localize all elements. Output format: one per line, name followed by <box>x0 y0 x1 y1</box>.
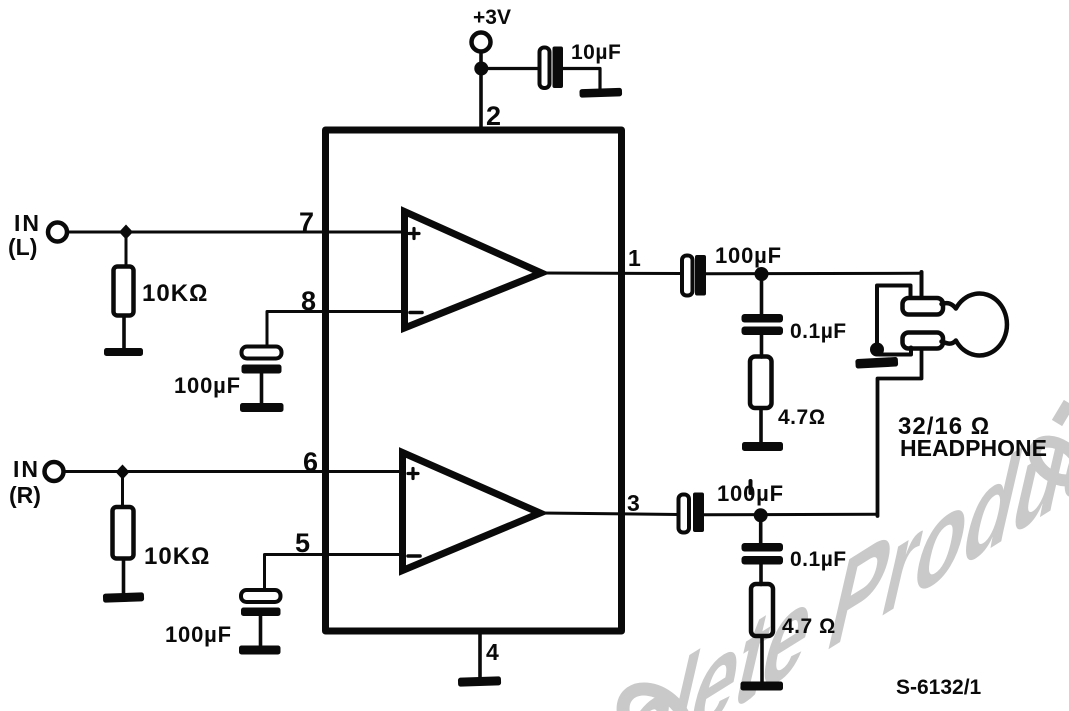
wire pin 1 output <box>542 272 683 276</box>
wire node L to C6 <box>760 274 764 315</box>
ground (C2) <box>240 403 284 412</box>
capacitor 10uF plate - <box>553 47 564 89</box>
wire supply to pin 2 <box>479 70 483 130</box>
wire IN(L) to pin 7 <box>67 231 405 234</box>
node supply junction <box>474 62 488 76</box>
ground (R2) <box>103 592 144 602</box>
capacitor C7 100uF (R out) plate - <box>693 493 704 533</box>
node input R junction <box>116 465 130 480</box>
ground (R3) <box>742 442 783 451</box>
ground (C4) <box>239 646 281 655</box>
capacitor C5 100uF (L out) plate - <box>695 255 706 296</box>
wire sleeve to ground link <box>879 348 911 355</box>
capacitor C6 0.1uF (L) plate top <box>742 314 784 323</box>
wire node R to C8 <box>759 515 763 543</box>
wire +3V stem <box>479 52 483 64</box>
svg-text:2: 2 <box>486 101 501 131</box>
svg-text:(L): (L) <box>8 234 37 260</box>
capacitor 10uF plate + <box>540 48 550 89</box>
+3V terminal <box>472 33 491 52</box>
svg-text:3: 3 <box>627 490 640 516</box>
ground (10uF) <box>579 88 622 98</box>
wire C4 to ground <box>259 616 263 646</box>
capacitor C8 0.1uF (R) plate bottom <box>742 556 784 565</box>
wire supply to C bypass <box>481 67 540 70</box>
wire R4 to ground <box>760 636 764 682</box>
svg-text:100µF: 100µF <box>715 243 782 268</box>
svg-text:IN: IN <box>14 210 41 236</box>
wire C7 to headphone <box>704 513 878 517</box>
svg-text:5: 5 <box>295 528 310 558</box>
headphone jack sleeve bracket <box>877 286 911 350</box>
wire C2 to ground <box>260 374 264 404</box>
wire C6 to R3 <box>760 335 764 357</box>
svg-text:8: 8 <box>301 286 316 316</box>
op-amp A2 <box>403 453 541 571</box>
capacitor C4 100uF (R) plate + <box>241 590 281 602</box>
IC box U1 <box>326 130 622 631</box>
resistor R1 10K (L) <box>114 267 134 316</box>
svg-text:1: 1 <box>628 245 641 271</box>
svg-text:HEADPHONE: HEADPHONE <box>900 435 1047 461</box>
svg-text:100µF: 100µF <box>174 373 241 398</box>
ground (headphone) <box>855 357 898 369</box>
wire R2 to ground <box>122 559 126 594</box>
capacitor C2 100uF (L) plate + <box>242 347 282 359</box>
svg-text:4: 4 <box>486 639 499 665</box>
resistor R4 4.7 ohm (R) <box>751 584 773 636</box>
ground (R1) <box>104 348 143 356</box>
node sleeve junction <box>870 343 884 357</box>
resistor R2 10K (R) <box>113 507 134 559</box>
svg-text:10KΩ: 10KΩ <box>142 280 208 307</box>
svg-text:100µF: 100µF <box>717 481 784 506</box>
node input L junction <box>119 225 133 240</box>
capacitor C5 100uF (L out) plate + <box>682 256 693 296</box>
resistor R3 4.7 ohm (L) <box>750 357 772 409</box>
wire pin 5 to C4 <box>265 555 403 591</box>
capacitor C8 0.1uF (R) plate top <box>742 543 784 552</box>
svg-text:4.7Ω: 4.7Ω <box>778 406 825 429</box>
wire C8 to R4 <box>759 565 763 585</box>
headphone tip contact <box>903 298 944 315</box>
ground (pin 4) <box>458 676 501 686</box>
svg-text:+3V: +3V <box>473 6 511 29</box>
svg-text:7: 7 <box>299 207 314 237</box>
wire 10uF to ground <box>563 69 600 89</box>
capacitor C7 100uF (R out) plate + <box>679 495 690 533</box>
capacitor C4 100uF (R) plate - <box>241 608 281 617</box>
svg-text:(R): (R) <box>9 482 41 508</box>
wire C5 to headphone <box>706 272 922 276</box>
wire node to R1 <box>125 238 128 267</box>
svg-text:10µF: 10µF <box>571 41 621 64</box>
headphone plug body <box>942 293 1007 355</box>
stray mark above 100uF label <box>749 481 753 493</box>
capacitor C6 0.1uF (L) plate bottom <box>742 327 784 336</box>
IN (R) terminal <box>45 462 64 481</box>
wire pin 8 to C2 <box>267 312 405 347</box>
wire R3 to ground <box>759 408 763 443</box>
ground (R4) <box>741 682 784 691</box>
wire IN(R) to pin 6 <box>64 470 403 473</box>
svg-text:6: 6 <box>303 447 318 477</box>
wire R1 to ground <box>122 316 126 349</box>
svg-text:10KΩ: 10KΩ <box>144 543 210 570</box>
svg-text:0.1µF: 0.1µF <box>790 548 847 571</box>
svg-text:S-6132/1: S-6132/1 <box>896 676 982 699</box>
wire pin 3 output <box>540 513 679 515</box>
svg-text:0.1µF: 0.1µF <box>790 320 847 343</box>
svg-text:IN: IN <box>13 456 40 482</box>
IN (L) terminal <box>48 223 67 242</box>
capacitor C2 100uF (L) plate - <box>242 365 282 374</box>
wire node to R2 <box>121 478 124 507</box>
svg-text:100µF: 100µF <box>165 622 232 647</box>
headphone ring contact <box>903 333 944 349</box>
wire pin 4 to ground <box>478 631 482 678</box>
node output L junction <box>755 267 769 281</box>
svg-text:4.7 Ω: 4.7 Ω <box>782 615 836 638</box>
op-amp A1 <box>405 212 542 329</box>
node output R junction <box>754 508 768 522</box>
